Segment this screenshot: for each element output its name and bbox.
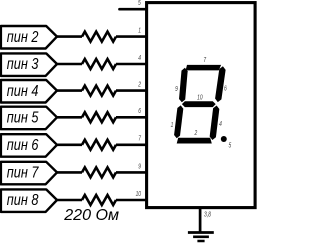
resistor R6 220 Ohm [82,167,116,177]
segment e (pin 1) [174,105,183,138]
svg-text:4: 4 [138,54,141,62]
segment f (pin 9) [179,68,188,103]
svg-text:10: 10 [136,190,142,198]
resistor R2 220 Ohm [82,59,116,69]
wire: resistor R2 to display pin 4 [116,63,146,66]
segment g (pin 10) [182,101,216,107]
svg-text:7: 7 [138,135,141,143]
pin flag "пин 6" [1,134,57,157]
wire: flag пин 3 to resistor R2 [57,63,83,66]
pin flag "пин 7" [1,162,57,185]
pin flag "пин 4" [1,80,57,103]
pin flag "пин 3" [1,53,57,76]
svg-text:пин 3: пин 3 [7,56,39,74]
svg-text:3,8: 3,8 [204,210,211,218]
svg-text:9: 9 [175,85,178,93]
svg-text:220 Ом: 220 Ом [63,207,119,224]
wire: resistor R4 to display pin 6 [116,116,146,119]
wire: display common to ground [199,208,202,232]
resistor R1 220 Ohm [82,32,116,42]
wire: flag пин 5 to resistor R4 [57,116,83,119]
resistor R4 220 Ohm [82,112,116,122]
wire: resistor R3 to display pin 2 [116,89,146,92]
wire: display pin 5 (dp) stub [120,8,146,11]
svg-text:5: 5 [138,0,141,7]
svg-text:10: 10 [197,94,203,102]
resistor R3 220 Ohm [82,86,116,96]
svg-text:1: 1 [171,121,174,129]
wire: resistor R1 to display pin 1 [116,35,146,38]
svg-text:4: 4 [219,120,222,128]
svg-text:пин 5: пин 5 [7,109,39,127]
wire: resistor R7 to display pin 10 [116,199,146,202]
segment b (pin 6) [215,66,226,102]
svg-text:7: 7 [203,56,206,64]
wire: flag пин 2 to resistor R1 [57,35,83,38]
7-segment display U1 (box) [147,3,256,208]
svg-text:2: 2 [137,81,141,89]
ground symbol [188,231,214,234]
resistor R5 220 Ohm [82,140,116,150]
pin flag "пин 5" [1,107,57,130]
wire: resistor R5 to display pin 7 [116,144,146,147]
pin flag "пин 8" [1,189,57,212]
svg-text:6: 6 [224,85,227,93]
resistor R7 220 Ohm [82,195,116,205]
wire: flag пин 7 to resistor R6 [57,171,83,174]
svg-text:6: 6 [138,107,141,115]
wire: flag пин 4 to resistor R3 [57,89,83,92]
svg-text:2: 2 [194,129,198,137]
svg-text:пин 4: пин 4 [7,83,39,101]
svg-text:9: 9 [138,162,141,170]
svg-text:пин 6: пин 6 [7,137,39,155]
wire: flag пин 8 to resistor R7 [57,199,83,202]
svg-text:пин 7: пин 7 [7,164,40,182]
wire: resistor R6 to display pin 9 [116,171,146,174]
segment d (pin 2) [177,138,212,144]
svg-text:1: 1 [138,27,141,35]
svg-text:пин 2: пин 2 [7,29,39,47]
decimal point (pin 5) [221,136,227,142]
wire: flag пин 6 to resistor R5 [57,144,83,147]
pin flag "пин 2" [1,26,57,49]
svg-text:5: 5 [228,142,231,150]
svg-text:пин 8: пин 8 [7,192,39,210]
segment a (pin 7) [186,65,222,71]
segment c (pin 4) [210,106,220,141]
